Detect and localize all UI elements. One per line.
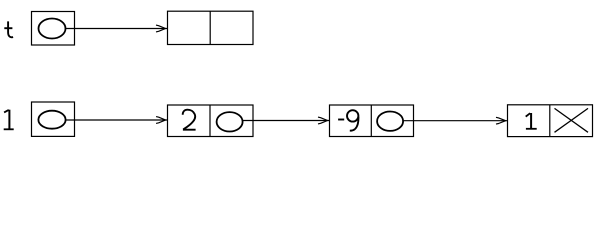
wire node -9 -> node 1: [403, 120, 507, 122]
arrowhead t arrow: [156, 25, 166, 32]
value 1: [526, 113, 537, 129]
divider node 1: [549, 105, 551, 137]
box l (pointer variable): [32, 102, 75, 136]
cons cell box (two empty cells): [168, 11, 254, 44]
arrowhead node2 arrow: [318, 117, 328, 124]
arrowhead l arrow: [156, 117, 166, 124]
label l: [4, 110, 14, 130]
null X stroke 1: [555, 108, 589, 132]
oval in node -9: [377, 112, 403, 131]
divider of cons cell: [209, 11, 211, 44]
minus sign of -9: [338, 119, 344, 121]
divider node -9: [370, 105, 372, 137]
wire l -> node 2: [66, 119, 168, 121]
label t: [4, 21, 13, 37]
node 2 box: [168, 105, 254, 137]
oval in node 2: [217, 112, 243, 131]
divider node 2: [209, 105, 211, 137]
oval in box t: [39, 19, 66, 39]
wire node 2 -> node -9: [243, 120, 330, 122]
value 9: [347, 110, 358, 130]
null X stroke 2: [555, 108, 589, 132]
node -9 box: [330, 105, 414, 137]
box t (pointer variable): [32, 12, 75, 46]
wire t -> cons cell: [66, 28, 168, 30]
value 2: [183, 110, 196, 130]
oval in box l: [38, 111, 65, 129]
arrowhead node -9 arrow: [496, 117, 506, 124]
node 1 box: [508, 105, 593, 137]
